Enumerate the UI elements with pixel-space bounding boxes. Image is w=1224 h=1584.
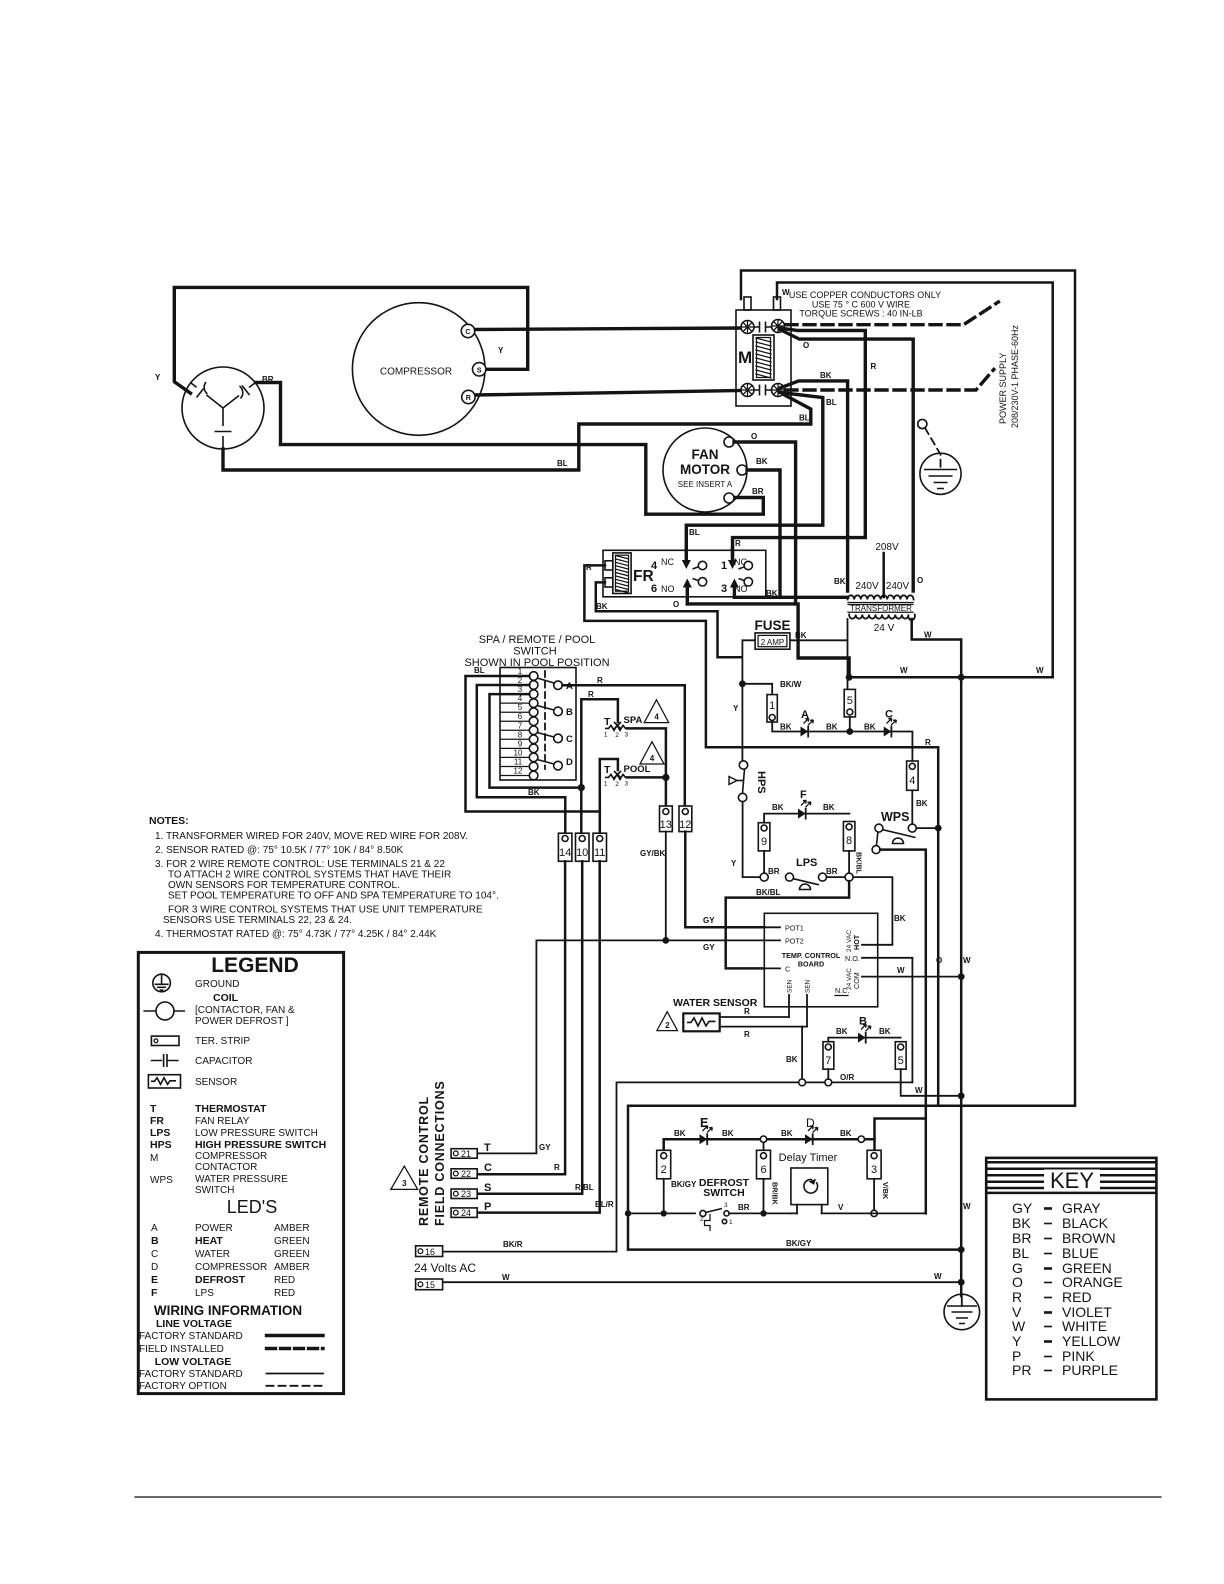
legend capacitor [151, 1054, 179, 1067]
svg-text:BR: BR [738, 1203, 750, 1212]
wire SPA pin3 to terminal 13 [627, 728, 666, 806]
O/R line (terminal 16 riser to N.O.) [443, 1082, 913, 1251]
svg-text:BR: BR [1012, 1230, 1031, 1246]
svg-text:BK/GY: BK/GY [671, 1180, 697, 1189]
terminal strip 9 [758, 823, 770, 851]
wire terminal3 to 10 [490, 694, 582, 788]
pin POT1 [764, 926, 780, 928]
svg-text:FR: FR [150, 1115, 164, 1127]
svg-text:Delay Timer: Delay Timer [779, 1152, 838, 1164]
terminal strip 5 [844, 689, 855, 717]
svg-text:WPS: WPS [150, 1175, 173, 1186]
field-installed dashed supply line 1 [786, 302, 998, 325]
terminal strip 14 [558, 833, 572, 861]
svg-text:GRAY: GRAY [1062, 1200, 1101, 1216]
svg-text:P: P [484, 1201, 491, 1213]
svg-text:FACTORY OPTION: FACTORY OPTION [139, 1381, 227, 1392]
terminal strip 8 [843, 822, 855, 851]
svg-text:A: A [151, 1223, 158, 1234]
svg-text:BLACK: BLACK [1062, 1215, 1109, 1231]
svg-text:BR/BK: BR/BK [771, 1182, 780, 1206]
svg-text:F: F [800, 789, 807, 801]
svg-text:[CONTACTOR, FAN &: [CONTACTOR, FAN & [195, 1005, 295, 1016]
svg-text:FAN RELAY: FAN RELAY [195, 1116, 250, 1127]
footer rule [135, 1496, 1161, 1498]
terminal R [462, 390, 475, 403]
svg-text:BK/BL: BK/BL [855, 852, 864, 875]
svg-text:R: R [554, 1163, 560, 1172]
svg-text:SEE INSERT A: SEE INSERT A [678, 480, 733, 489]
wire terminal2 to 14 [477, 685, 566, 834]
wire R from FR coil to WPS [584, 565, 938, 825]
outer line-voltage loop (M left post, right side down to defrost bottom) [628, 271, 1075, 1250]
svg-text:COM: COM [852, 972, 861, 989]
svg-text:O: O [917, 576, 923, 585]
svg-text:3: 3 [624, 732, 628, 739]
svg-text:F: F [151, 1287, 158, 1299]
junction dot at R riser [578, 784, 585, 791]
svg-text:2: 2 [615, 781, 619, 788]
svg-text:V: V [838, 1203, 844, 1212]
svg-text:R: R [735, 539, 741, 548]
svg-text:9: 9 [518, 739, 523, 748]
svg-text:O: O [673, 600, 679, 609]
svg-text:E: E [151, 1274, 158, 1286]
svg-text:BL: BL [474, 666, 485, 675]
svg-text:22: 22 [461, 1169, 471, 1179]
svg-text:3: 3 [518, 685, 523, 694]
svg-text:Y: Y [731, 859, 737, 868]
svg-text:BK: BK [786, 1055, 798, 1064]
terminal strip 2 [657, 1150, 671, 1179]
svg-text:BK: BK [879, 1027, 891, 1036]
wire BK from FR coil to fuse riser [596, 582, 741, 657]
svg-text:12: 12 [514, 767, 523, 776]
svg-text:13: 13 [660, 819, 672, 831]
svg-text:O: O [803, 341, 809, 350]
svg-text:GY: GY [703, 943, 715, 952]
transformer primary winding [848, 595, 914, 599]
wire C row to terminal 4 [909, 732, 913, 762]
key header hatch [988, 1162, 1154, 1169]
svg-text:1: 1 [604, 781, 608, 788]
svg-text:R: R [588, 690, 594, 699]
wire BK/BL to board C [726, 881, 849, 968]
svg-text:TRANSFORMER: TRANSFORMER [850, 604, 912, 613]
svg-text:SENSORS USE TERMINALS 22, 23 &: SENSORS USE TERMINALS 22, 23 & 24. [163, 915, 352, 926]
contact B [537, 706, 554, 711]
svg-text:BK: BK [756, 457, 768, 466]
svg-text:BR: BR [768, 867, 780, 876]
svg-text:BROWN: BROWN [1062, 1230, 1116, 1246]
HPS switch [739, 761, 747, 769]
svg-text:14: 14 [559, 847, 571, 859]
svg-text:CAPACITOR: CAPACITOR [195, 1056, 252, 1067]
svg-text:11: 11 [514, 758, 523, 767]
svg-text:C: C [566, 734, 573, 745]
svg-text:S: S [484, 1182, 491, 1194]
terminal S [473, 363, 486, 376]
LPS junction left [760, 873, 768, 881]
svg-text:POWER: POWER [195, 1223, 233, 1234]
wire Y loop (S terminal to run capacitor) [174, 287, 527, 393]
svg-text:GY: GY [703, 916, 715, 925]
svg-text:BLUE: BLUE [1062, 1245, 1099, 1261]
WPS BK riser elbow to D junction [875, 1119, 926, 1140]
svg-text:4: 4 [651, 560, 658, 572]
svg-text:W: W [934, 1272, 942, 1281]
junction circle terminal 7 [825, 1079, 832, 1086]
svg-text:C: C [465, 327, 470, 336]
M terminal top-right [772, 320, 785, 333]
legend box [138, 952, 343, 1393]
run capacitor (dual) [182, 367, 264, 449]
junction circle above terminal 6 [760, 1136, 766, 1142]
svg-text:SPA / REMOTE / POOL: SPA / REMOTE / POOL [479, 634, 596, 646]
svg-text:LEGEND: LEGEND [211, 954, 299, 977]
FR coil [613, 553, 631, 594]
svg-text:BK: BK [781, 1129, 793, 1138]
M capacitor symbol top [754, 322, 771, 333]
junction W rail / W drop [958, 674, 965, 681]
svg-text:HPS: HPS [755, 771, 767, 794]
contact C [537, 733, 554, 738]
svg-text:Y: Y [155, 373, 161, 382]
svg-text:SET POOL TEMPERATURE TO OFF AN: SET POOL TEMPERATURE TO OFF AND SPA TEMP… [168, 891, 499, 902]
svg-text:N.O.: N.O. [845, 954, 860, 963]
bottom row of defrost section [628, 1212, 695, 1214]
svg-text:BK: BK [840, 1129, 852, 1138]
svg-text:A: A [801, 709, 809, 721]
svg-text:3. FOR 2 WIRE REMOTE CONTROL:: 3. FOR 2 WIRE REMOTE CONTROL: USE TERMIN… [155, 859, 445, 870]
svg-text:COMPRESSOR: COMPRESSOR [380, 367, 452, 378]
fan terminal BR [724, 493, 734, 503]
svg-text:C: C [785, 964, 790, 973]
wire secondary left to fuse [790, 619, 848, 640]
M terminal bottom-left [741, 384, 754, 397]
wire 8 to LPS junction [848, 851, 850, 874]
svg-text:2. SENSOR RATED @: 75° 10.5K /: 2. SENSOR RATED @: 75° 10.5K / 77° 10K /… [155, 845, 404, 856]
svg-text:NO: NO [661, 584, 675, 594]
svg-text:WHITE: WHITE [1062, 1318, 1107, 1334]
svg-text:C: C [484, 1162, 492, 1174]
water sensor triangle 2 [657, 1012, 678, 1031]
terminal strip 11 [593, 833, 607, 861]
svg-text:R: R [925, 738, 931, 747]
svg-text:BL: BL [826, 398, 837, 407]
terminal strip 1 [767, 695, 777, 722]
wire BL: run capacitor bottom to contactor M [223, 393, 811, 471]
terminal circles [529, 672, 538, 780]
svg-text:3: 3 [721, 583, 727, 595]
LED E [700, 1134, 708, 1144]
svg-text:BK: BK [795, 631, 807, 640]
terminal strip 6 [757, 1150, 771, 1179]
svg-text:BK: BK [674, 1129, 686, 1138]
svg-text:12: 12 [679, 819, 691, 831]
svg-text:NOTES:: NOTES: [149, 815, 189, 827]
svg-text:1: 1 [721, 560, 727, 572]
junction dot defrost bottom / W rail [958, 1246, 965, 1253]
riser 10 to terminal 23 [477, 861, 582, 1193]
svg-text:RED: RED [1062, 1289, 1092, 1305]
riser 12 to POT1 [685, 832, 764, 928]
pin C [764, 967, 780, 969]
svg-text:W: W [963, 1202, 971, 1211]
svg-text:SWITCH: SWITCH [703, 1187, 744, 1199]
pin POT2 [764, 939, 780, 941]
junction Y riser / BK-W branch [739, 680, 746, 687]
svg-text:B: B [566, 707, 573, 718]
svg-text:BK: BK [820, 371, 832, 380]
svg-text:R: R [597, 676, 603, 685]
wire fan O [734, 442, 796, 604]
FR coil stub 2 [605, 578, 613, 587]
M terminal top-left [741, 321, 754, 334]
legend terminal strip [151, 1036, 179, 1045]
svg-text:BK: BK [826, 723, 838, 732]
white-wire loop (M right post, down right side, W rail) [777, 283, 1053, 678]
svg-text:BL: BL [1012, 1245, 1029, 1261]
svg-text:1: 1 [604, 732, 608, 739]
terminal C [461, 324, 474, 337]
key entries [1012, 1200, 1123, 1378]
triangle 3 [391, 1166, 418, 1189]
svg-text:R/BL: R/BL [575, 1183, 594, 1192]
svg-text:HOT: HOT [852, 934, 861, 950]
wire 5b to W rail [901, 1069, 962, 1096]
svg-text:W: W [1012, 1318, 1026, 1334]
svg-text:Y: Y [1012, 1333, 1022, 1349]
defrost row top (E / D leds) [664, 1139, 875, 1152]
svg-text:AMBER: AMBER [274, 1262, 310, 1273]
svg-text:GY/BK: GY/BK [640, 849, 666, 858]
terminal strip 7 [823, 1042, 834, 1070]
svg-text:16: 16 [425, 1247, 435, 1257]
svg-text:YELLOW: YELLOW [1062, 1333, 1121, 1349]
junction dot POT2/13 [662, 937, 669, 944]
svg-text:BOARD: BOARD [798, 960, 824, 969]
wire terminal3 to bottom row [873, 1179, 875, 1210]
svg-text:BK/BL: BK/BL [756, 888, 781, 897]
terminal 24 [451, 1208, 477, 1218]
field-installed dashed supply line 2 [786, 369, 994, 390]
wire terminal 4 to WPS [911, 790, 913, 824]
svg-text:T: T [604, 764, 611, 776]
svg-text:6: 6 [651, 583, 657, 595]
svg-text:GY: GY [539, 1143, 551, 1152]
terminal strip 3 [867, 1150, 881, 1179]
svg-text:SEN: SEN [787, 979, 794, 993]
svg-text:TORQUE SCREWS : 40 IN-LB: TORQUE SCREWS : 40 IN-LB [799, 309, 922, 319]
switch box [500, 668, 576, 781]
svg-text:W: W [924, 631, 932, 640]
contact D [537, 760, 554, 765]
svg-text:POT2: POT2 [785, 936, 804, 945]
wire BK/W to terminal 1 [742, 684, 772, 695]
svg-text:GREEN: GREEN [274, 1236, 310, 1247]
fan terminal BK [737, 465, 747, 475]
transformer secondary winding [849, 615, 915, 621]
svg-text:6: 6 [760, 1164, 766, 1176]
svg-text:BR: BR [752, 487, 764, 496]
capacitor branch upper-left [207, 395, 224, 408]
svg-text:V/BK: V/BK [881, 1182, 890, 1200]
svg-text:SPA: SPA [624, 715, 643, 726]
svg-text:OWN SENSORS FOR TEMPERATURE CO: OWN SENSORS FOR TEMPERATURE CONTROL. [168, 880, 400, 891]
wire C to contactor M [475, 328, 742, 330]
svg-text:POOL: POOL [624, 764, 651, 775]
LPS right junction [827, 876, 846, 878]
svg-text:W: W [897, 966, 905, 975]
svg-text:W: W [1036, 666, 1044, 675]
wire BL2 from M bottom-right to FR contact 4 [686, 393, 823, 557]
svg-text:FUSE: FUSE [754, 618, 790, 633]
svg-text:1. TRANSFORMER WIRED FOR 240V,: 1. TRANSFORMER WIRED FOR 240V, MOVE RED … [155, 831, 468, 842]
svg-text:COIL: COIL [213, 992, 239, 1004]
svg-text:BL/R: BL/R [595, 1200, 614, 1209]
svg-text:HIGH PRESSURE SWITCH: HIGH PRESSURE SWITCH [195, 1139, 326, 1151]
svg-text:SENSOR: SENSOR [195, 1077, 237, 1088]
svg-text:THERMOSTAT: THERMOSTAT [195, 1103, 267, 1115]
svg-text:POWER SUPPLY: POWER SUPPLY [998, 353, 1008, 424]
wire 9 to LPS [763, 851, 765, 873]
svg-text:Y: Y [733, 704, 739, 713]
triangle 4 (spa) [644, 700, 669, 723]
wire fan BK [747, 470, 780, 597]
svg-text:5: 5 [847, 695, 853, 707]
svg-text:4: 4 [518, 694, 523, 703]
svg-text:7: 7 [825, 1055, 831, 1067]
svg-text:BK: BK [596, 602, 608, 611]
riser 14 to terminal 22 [477, 861, 565, 1174]
triangle 4 (pool) [640, 742, 664, 764]
legend ground symbol [153, 974, 171, 992]
terminal strip 5b [895, 1042, 906, 1070]
svg-text:5: 5 [898, 1055, 904, 1067]
svg-text:208/230V-1 PHASE-60Hz: 208/230V-1 PHASE-60Hz [1010, 324, 1020, 428]
svg-text:BK: BK [834, 577, 846, 586]
LED F [764, 814, 849, 823]
wire R from M top-right terminal to FR contact 1 [780, 330, 913, 592]
svg-text:FAN: FAN [692, 447, 719, 462]
svg-text:2 AMP: 2 AMP [761, 638, 785, 647]
junction W rail / O wire [846, 674, 853, 681]
svg-text:LOW PRESSURE SWITCH: LOW PRESSURE SWITCH [195, 1128, 318, 1139]
svg-text:BK: BK [780, 723, 792, 732]
wire POOL pin3 to dot [627, 776, 666, 779]
svg-text:BK: BK [528, 788, 540, 797]
capacitor branch bottom [222, 408, 224, 426]
svg-text:2: 2 [665, 1021, 670, 1030]
svg-text:4: 4 [909, 775, 915, 787]
delay timer box [791, 1168, 828, 1205]
dashed divider [544, 671, 546, 769]
svg-text:BK: BK [894, 914, 906, 923]
wire HPS to LPS [743, 802, 760, 877]
svg-text:3: 3 [624, 781, 628, 788]
terminal 22 [451, 1169, 477, 1179]
svg-text:BK/W: BK/W [780, 680, 802, 689]
wire sensor R1 [720, 1016, 789, 1018]
FR relay box [603, 550, 766, 597]
wire BK to 24VAC HOT [853, 877, 892, 945]
svg-text:4: 4 [650, 754, 655, 763]
svg-text:23: 23 [461, 1189, 471, 1199]
wire terminal2 to bottom row [663, 1179, 665, 1214]
ground symbol (upper) [920, 453, 961, 494]
wire POOL wiper to terminal 11 [600, 759, 618, 834]
wire BR: run capacitor to fan motor BR [256, 383, 764, 515]
svg-text:RED: RED [274, 1275, 295, 1286]
svg-text:PURPLE: PURPLE [1062, 1362, 1118, 1378]
svg-text:R: R [744, 1030, 750, 1039]
svg-text:R: R [1012, 1289, 1022, 1305]
svg-text:E: E [700, 1116, 708, 1130]
svg-text:3: 3 [871, 1164, 877, 1176]
junction circle BK drop [799, 1079, 806, 1086]
W vertical to bottom ground [960, 677, 963, 1296]
svg-text:3: 3 [724, 1202, 728, 1209]
svg-text:4. THERMOSTAT RATED @: 75° 4.7: 4. THERMOSTAT RATED @: 75° 4.73K / 77° 4… [155, 929, 437, 940]
svg-text:WATER PRESSURE: WATER PRESSURE [195, 1174, 288, 1185]
svg-text:8: 8 [518, 730, 523, 739]
svg-text:240V: 240V [855, 581, 879, 592]
svg-text:C: C [151, 1249, 158, 1260]
svg-text:BK: BK [823, 803, 835, 812]
terminal strip 13 [660, 806, 673, 832]
terminal 16 [416, 1246, 443, 1257]
junction circle right of D [858, 1136, 864, 1142]
svg-text:T: T [484, 1142, 491, 1154]
svg-text:1: 1 [729, 1219, 733, 1226]
svg-text:BK: BK [772, 803, 784, 812]
svg-text:WATER: WATER [195, 1249, 230, 1260]
ground symbol (bottom) [944, 1294, 980, 1330]
fan terminal O [724, 437, 734, 447]
timer stubs [797, 1205, 822, 1214]
W rail horizontal [849, 676, 1053, 679]
R riser continues to defrost loop [937, 828, 940, 1106]
svg-text:15: 15 [425, 1280, 435, 1290]
svg-text:SEN: SEN [805, 979, 812, 993]
wire N.O. down to O/R line [878, 958, 913, 1083]
svg-text:24: 24 [461, 1208, 471, 1218]
wire terminal6 to bottom row [763, 1179, 765, 1214]
svg-text:FACTORY STANDARD: FACTORY STANDARD [139, 1331, 243, 1342]
svg-text:CONTACTOR: CONTACTOR [195, 1162, 257, 1173]
LED A [801, 727, 809, 737]
svg-text:D: D [151, 1262, 158, 1273]
svg-text:WPS: WPS [881, 810, 909, 824]
svg-text:ORANGE: ORANGE [1062, 1274, 1123, 1290]
svg-text:D: D [806, 1116, 815, 1130]
wire BL terminal1 to pool wiper riser [466, 676, 600, 812]
LED D [805, 1134, 813, 1144]
svg-text:HPS: HPS [150, 1139, 172, 1151]
svg-text:2: 2 [700, 1216, 704, 1223]
R riser to thermostats [581, 699, 618, 787]
svg-text:BK: BK [1012, 1215, 1031, 1231]
svg-text:M: M [738, 348, 752, 367]
svg-text:FIELD INSTALLED: FIELD INSTALLED [139, 1344, 224, 1355]
capacitor branch upper-right [223, 396, 239, 409]
svg-text:POT1: POT1 [785, 923, 804, 932]
wire BK contact3 to transformer primary left [734, 596, 847, 599]
terminal strip 10 [576, 833, 590, 861]
wire WPS to R riser [916, 827, 936, 829]
wire 24VAC W (terminal 15) [443, 1281, 962, 1283]
